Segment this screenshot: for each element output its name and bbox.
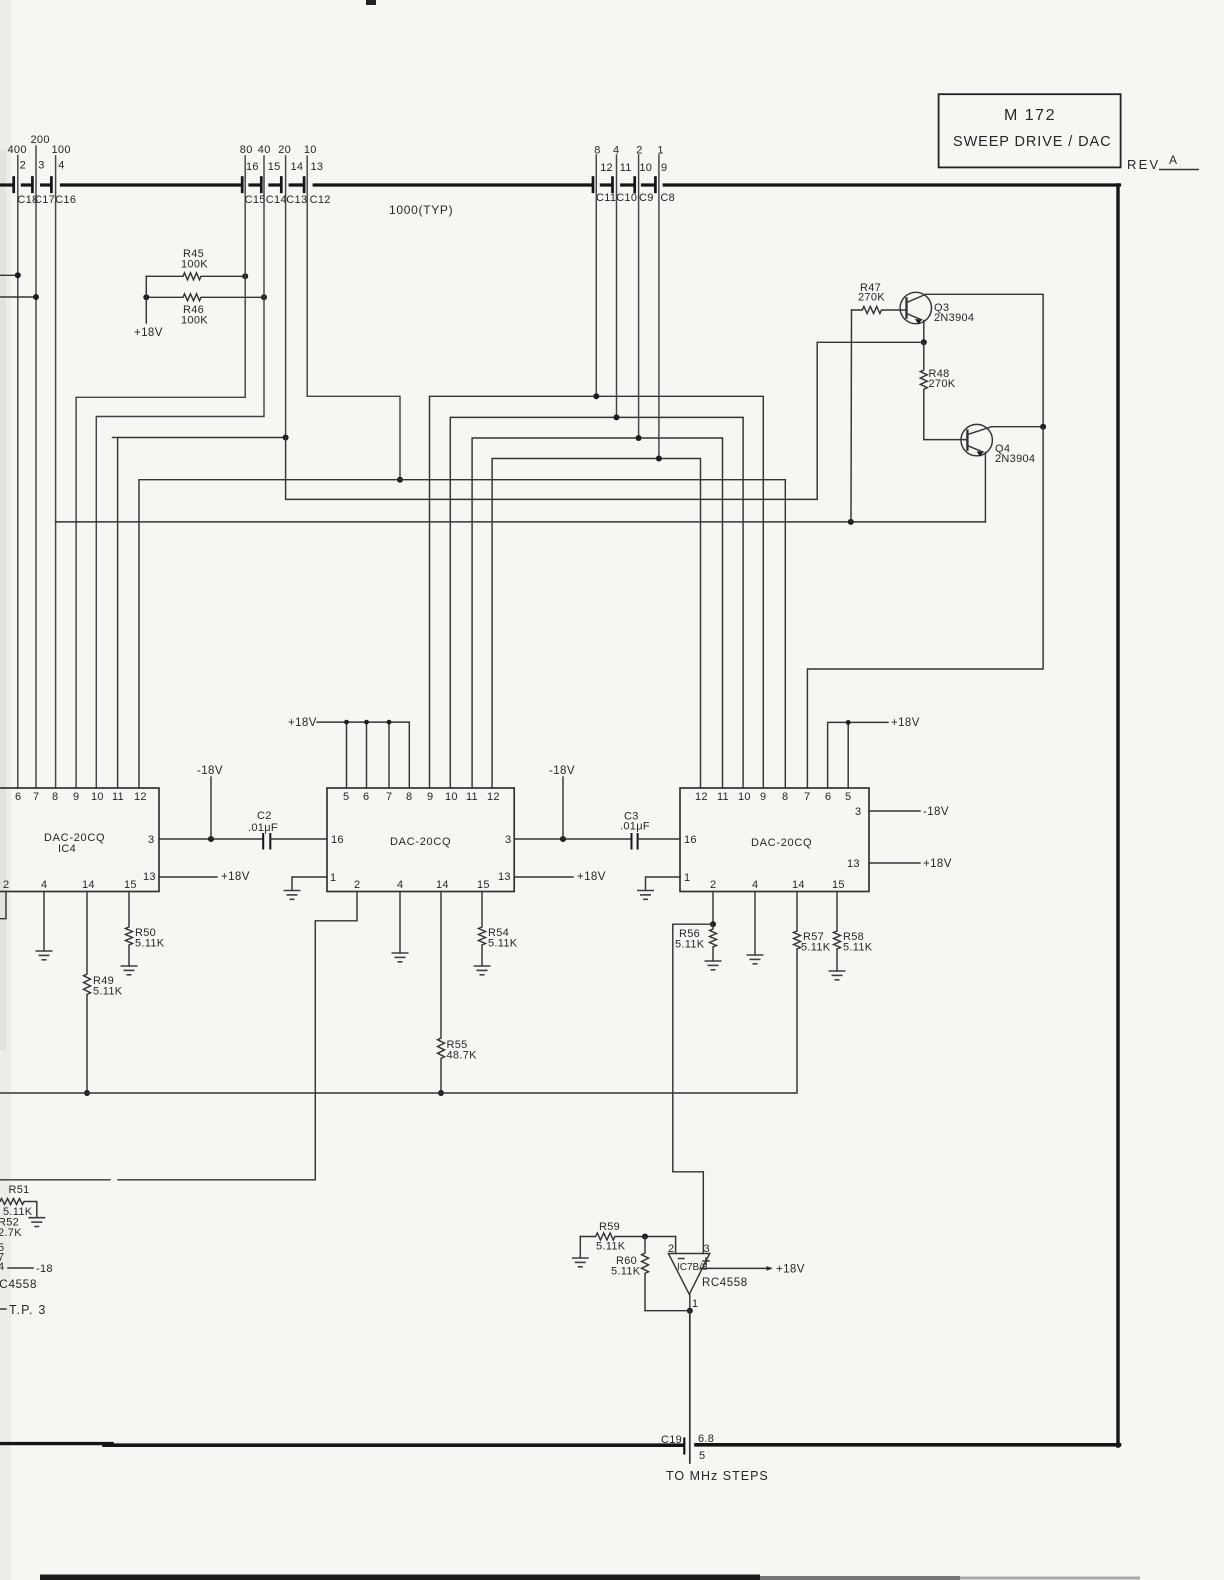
- ground (DAC3 pin 1): [637, 891, 654, 900]
- wire: R47 left riser down to y522 line: [850, 310, 853, 522]
- svg-text:14: 14: [792, 879, 805, 891]
- svg-text:3: 3: [148, 834, 154, 846]
- svg-text:1000(TYP): 1000(TYP): [389, 203, 453, 217]
- resistor R57 5.11K (DAC3 pin 14): [794, 892, 801, 956]
- svg-text:2.7K: 2.7K: [0, 1227, 22, 1239]
- wire: C10 line down: [616, 155, 618, 417]
- svg-text:2: 2: [668, 1243, 674, 1255]
- svg-text:2: 2: [710, 879, 716, 891]
- cap bank 2 pin numbers: [246, 161, 323, 173]
- svg-text:+18V: +18V: [221, 871, 250, 883]
- svg-text:.01μF: .01μF: [620, 821, 650, 833]
- svg-text:C15: C15: [245, 194, 266, 206]
- svg-text:20: 20: [278, 144, 291, 156]
- svg-text:10: 10: [639, 162, 652, 174]
- node: C8 joins pin12 net: [656, 456, 662, 462]
- svg-text:R51: R51: [9, 1184, 30, 1196]
- svg-text:1: 1: [692, 1298, 698, 1310]
- svg-text:200: 200: [31, 134, 50, 146]
- svg-text:+18V: +18V: [776, 1264, 805, 1276]
- svg-text:15: 15: [477, 879, 490, 891]
- svg-text:8: 8: [594, 145, 600, 157]
- svg-text:3: 3: [38, 160, 44, 172]
- svg-text:REV: REV: [1127, 157, 1160, 172]
- svg-text:1: 1: [684, 872, 690, 884]
- svg-text:5: 5: [343, 791, 349, 803]
- node: C9 joins pin11 net: [636, 435, 642, 441]
- svg-text:2: 2: [20, 160, 26, 172]
- wire: C13 net continues down then right to Q3 emitter riser: [286, 342, 818, 499]
- svg-text:10: 10: [304, 144, 317, 156]
- DAC3 bottom pin numbers: [710, 879, 845, 891]
- svg-text:IC4: IC4: [58, 843, 76, 855]
- wire: DAC2 pin 3 out to C3: [514, 838, 631, 840]
- svg-text:2: 2: [354, 879, 360, 891]
- svg-text:7: 7: [804, 791, 810, 803]
- svg-text:10: 10: [445, 791, 458, 803]
- svg-text:3: 3: [505, 834, 511, 846]
- node: C13 junction: [283, 435, 289, 441]
- svg-text:12: 12: [600, 162, 613, 174]
- svg-text:C16: C16: [55, 194, 76, 206]
- wire: DAC2 pin 11 net to DAC3 pin 11 with C9 tap: [472, 438, 722, 788]
- svg-text:R59: R59: [599, 1221, 620, 1233]
- svg-text:SWEEP DRIVE / DAC: SWEEP DRIVE / DAC: [953, 134, 1111, 150]
- capacitor C13 plate: [280, 178, 283, 192]
- wire: DAC3 pin 13 out to +18V: [869, 862, 920, 864]
- wire: IC4 pin 12 long line to DAC3 pin 8: [139, 480, 785, 788]
- label T.P. 3: [0, 1308, 6, 1310]
- node: -18V tap on DAC2 pin3 wire: [560, 836, 566, 842]
- node: R55 bottom on long net: [438, 1090, 444, 1096]
- svg-text:270K: 270K: [929, 378, 956, 390]
- wire: junction left and down to op-amp pin 3: [673, 924, 713, 1253]
- svg-text:7: 7: [386, 791, 392, 803]
- svg-text:8: 8: [406, 791, 412, 803]
- node: +18V taps: [344, 720, 349, 725]
- svg-text:8: 8: [782, 791, 788, 803]
- svg-text:C17: C17: [34, 194, 55, 206]
- wire: DAC2 pin 1 to ground: [292, 877, 327, 891]
- ground (DAC3 pin 4): [747, 955, 764, 964]
- svg-text:4: 4: [397, 879, 403, 891]
- resistor R48 270K (vertical): [920, 342, 966, 439]
- svg-text:+18V: +18V: [923, 858, 952, 870]
- svg-text:9: 9: [73, 791, 79, 803]
- svg-text:11: 11: [112, 791, 124, 803]
- svg-text:13: 13: [498, 871, 511, 883]
- svg-text:T.P. 3: T.P. 3: [9, 1303, 47, 1317]
- wire: DAC2 pin 9 net to DAC3 pin 9 with C11 tap: [430, 396, 764, 788]
- svg-text:3: 3: [704, 1243, 710, 1255]
- svg-text:1: 1: [330, 872, 336, 884]
- wire: stub from page edge to 200 line: [0, 296, 36, 298]
- capacitor C16 plate: [50, 178, 53, 192]
- svg-text:12: 12: [695, 791, 708, 803]
- capacitor C19 6.8 (on border): [683, 1439, 685, 1454]
- cap bank 1 value labels: [8, 134, 71, 156]
- wire: Q4 emitter down, corner left joins y522 line: [984, 452, 986, 522]
- svg-text:13: 13: [847, 858, 860, 870]
- resistor R46 100K: [146, 294, 264, 301]
- wire: C8 line down: [658, 155, 660, 459]
- svg-text:RC4558: RC4558: [702, 1277, 748, 1289]
- wire: long horizontal net y1093: [0, 955, 797, 1093]
- svg-text:11: 11: [466, 791, 478, 803]
- ground (R56): [705, 961, 722, 970]
- resistor R45 100K: [146, 273, 245, 280]
- svg-text:+18V: +18V: [134, 327, 163, 339]
- wire: Q3 emitter down to junction: [923, 321, 925, 343]
- capacitor C3 .01uF: [631, 834, 633, 849]
- svg-text:8: 8: [52, 791, 58, 803]
- ground (R54): [474, 966, 491, 975]
- svg-text:3: 3: [855, 806, 861, 818]
- svg-text:C10: C10: [616, 192, 637, 204]
- wire: output down to C19: [689, 1311, 691, 1463]
- node: R49 bottom on long net: [84, 1090, 90, 1096]
- DAC2 top pin numbers: [343, 791, 500, 803]
- wire: IC4 pin 11 line left segment: [113, 437, 118, 439]
- svg-text:5.11K: 5.11K: [843, 942, 873, 954]
- wire: +18V bundle to DAC2 pins 5-8: [317, 722, 409, 788]
- svg-text:6: 6: [15, 791, 21, 803]
- svg-text:12: 12: [134, 791, 147, 803]
- svg-text:40: 40: [258, 144, 271, 156]
- svg-text:DAC-20CQ: DAC-20CQ: [751, 837, 812, 849]
- svg-text:7: 7: [33, 791, 39, 803]
- svg-text:4: 4: [58, 160, 64, 172]
- capacitor C18 plate: [12, 178, 15, 192]
- DAC IC4 top pin numbers: [15, 791, 147, 803]
- svg-text:14: 14: [291, 161, 304, 173]
- svg-text:10: 10: [91, 791, 104, 803]
- node: stub1 junction: [15, 272, 21, 278]
- svg-text:13: 13: [143, 871, 156, 883]
- wire: DAC2 pin 13 out to +18V: [514, 876, 573, 878]
- svg-text:15: 15: [268, 161, 281, 173]
- wire: DAC2 pin 10 net to DAC3 pin 10 with C10 tap: [450, 417, 743, 788]
- capacitor C8 plate: [654, 178, 657, 192]
- border: bottom edge (right of C19): [696, 1443, 1120, 1447]
- node: R46 right on C14 line: [261, 294, 267, 300]
- svg-text:400: 400: [8, 144, 27, 156]
- svg-text:11: 11: [620, 162, 632, 174]
- node: -18V tap on pin3 wire: [208, 836, 214, 842]
- page scan artifacts: [0, 0, 11, 1580]
- svg-text:12: 12: [487, 791, 500, 803]
- DAC IC4 bottom pin numbers: [3, 879, 137, 891]
- svg-text:C12: C12: [310, 194, 331, 206]
- cap bank 3 value labels: [594, 145, 664, 157]
- svg-text:-18V: -18V: [549, 765, 575, 777]
- svg-text:+18V: +18V: [891, 717, 920, 729]
- wire: DAC2 pin 4 to ground: [399, 892, 401, 954]
- wire: DAC2 pin 2 path down-left-down off page: [118, 892, 357, 1180]
- resistor R47 270K: [852, 307, 901, 314]
- svg-text:14: 14: [82, 879, 95, 891]
- node: C10 joins pin10 net: [614, 414, 620, 420]
- svg-text:DAC-20CQ: DAC-20CQ: [390, 836, 451, 848]
- wire: C9 line down: [638, 155, 640, 438]
- capacitor C15 plate: [241, 178, 244, 192]
- wire: op-amp pin 2 stub: [675, 1237, 677, 1254]
- svg-text:10: 10: [738, 791, 751, 803]
- wire: IC4 pin 13 out to +18V: [159, 876, 217, 878]
- wire: DAC3 pin 4 to ground: [754, 892, 756, 956]
- svg-text:5.11K: 5.11K: [93, 986, 123, 998]
- cap bank 3 pin numbers: [600, 162, 667, 174]
- svg-text:+18V: +18V: [288, 717, 317, 729]
- svg-text:2: 2: [636, 145, 642, 157]
- node: Q4 collector joins Q3 collector riser: [1040, 424, 1046, 430]
- node: pin2/R56 junction: [710, 921, 716, 927]
- svg-text:5.11K: 5.11K: [801, 942, 831, 954]
- wire: op-amp +18V supply: [701, 1267, 772, 1269]
- transistor Q3 2N3904: [900, 292, 931, 324]
- svg-text:100: 100: [52, 144, 71, 156]
- svg-text:TO MHz STEPS: TO MHz STEPS: [666, 1469, 769, 1483]
- wire: +18V feed up to R45/R46: [145, 276, 147, 323]
- svg-text:C9: C9: [639, 192, 654, 204]
- resistor R49 5.11K (IC4 pin 14): [84, 892, 91, 1094]
- svg-text:-18V: -18V: [197, 765, 223, 777]
- svg-text:4: 4: [752, 879, 758, 891]
- border: right edge: [1116, 185, 1119, 1446]
- wire: pin 4 to -18: [8, 1267, 33, 1269]
- wire: -18V drop: [210, 777, 212, 839]
- svg-text:4: 4: [0, 1261, 4, 1273]
- svg-text:.01μF: .01μF: [248, 822, 278, 834]
- capacitor C10 plate: [611, 178, 614, 192]
- svg-text:5.11K: 5.11K: [675, 939, 705, 951]
- svg-text:C11: C11: [596, 192, 616, 204]
- node: C11 joins pin9 net: [593, 393, 599, 399]
- svg-text:100K: 100K: [181, 259, 208, 271]
- DAC IC4 box (left, cut by page edge): [0, 788, 159, 892]
- wire: DAC3 pin 2 down to junction: [712, 892, 714, 925]
- node: output/R60 junction: [687, 1308, 693, 1314]
- svg-text:IC7B/8: IC7B/8: [677, 1262, 708, 1273]
- wire: IC4 pin 3 out to C2: [159, 838, 263, 840]
- resistor R50 5.11K (IC4 pin 15): [126, 892, 133, 967]
- capacitor C9 plate: [633, 178, 636, 192]
- wire: C14 line down, corner left at y416.5, to IC4 pin 10: [96, 156, 264, 788]
- svg-text:-18V: -18V: [923, 806, 949, 818]
- capacitor C2 .01uF: [262, 834, 264, 849]
- wire: junction left to R60 bottom: [645, 1310, 690, 1312]
- svg-text:16: 16: [246, 161, 259, 173]
- wire: IC4 pin 4 to ground: [43, 892, 45, 952]
- wire: +18V bundle to DAC3 pins 5,6: [828, 722, 888, 788]
- title block box: [939, 94, 1121, 167]
- svg-text:4: 4: [41, 879, 47, 891]
- capacitor C12 plate: [303, 178, 306, 192]
- node: R47 riser joins y522 line: [848, 519, 854, 525]
- svg-text:RC4558: RC4558: [0, 1277, 37, 1291]
- svg-text:+18V: +18V: [577, 871, 606, 883]
- wire: net from C16/IC4 pin8 line across to Q4 emitter: [56, 521, 986, 523]
- svg-text:C8: C8: [660, 192, 675, 204]
- wire: emitter junction left then down (to y499 net): [817, 341, 924, 343]
- svg-text:2N3904: 2N3904: [934, 312, 974, 324]
- capacitor C17 plate: [31, 178, 34, 192]
- svg-text:-18: -18: [36, 1263, 53, 1275]
- node: R45/R46 left junction: [143, 294, 149, 300]
- wire: C12 line down, jog right at y396.3, down x400: [307, 156, 400, 480]
- svg-text:100K: 100K: [181, 315, 208, 327]
- wire: Q4 collector to riser: [992, 426, 1044, 428]
- top bus segments (thick) with capacitor gaps: [0, 183, 1120, 186]
- node: C12 jog joins IC4 pin12 line: [397, 477, 403, 483]
- svg-text:C14: C14: [266, 194, 287, 206]
- ground (R51): [28, 1218, 45, 1227]
- svg-text:48.7K: 48.7K: [447, 1050, 478, 1062]
- resistor R55 48.7K (DAC2 pin 14): [438, 892, 445, 1094]
- wire: collector riser down, corner left to DAC3 pin 7: [807, 427, 1043, 788]
- svg-text:13: 13: [311, 161, 324, 173]
- svg-text:5.11K: 5.11K: [488, 938, 518, 950]
- svg-text:2N3904: 2N3904: [995, 453, 1035, 465]
- node: R45 right on C15 line: [242, 273, 248, 279]
- node: stub2 junction: [33, 294, 39, 300]
- wire: DAC2 pin 12 net to DAC3 pin 12 with C8 tap: [492, 459, 700, 789]
- wire: R59 left down to ground: [579, 1237, 581, 1259]
- ground (DAC2 pin 4): [392, 953, 409, 962]
- ground (DAC2 pin 1): [284, 891, 301, 900]
- svg-text:9: 9: [427, 791, 433, 803]
- ground (R58): [829, 971, 846, 980]
- wire: DAC3 pin 3 out to -18V: [869, 810, 920, 812]
- wire: IC4 pin 2 stub down-left off page: [0, 892, 6, 919]
- svg-text:11: 11: [717, 791, 729, 803]
- resistor R59 5.11K: [580, 1233, 675, 1240]
- svg-text:15: 15: [832, 879, 845, 891]
- wire: 200 line (top pin3) down to IC4 pin 7: [35, 146, 37, 788]
- ground (R50): [121, 966, 138, 975]
- resistor R54 5.11K (DAC2 pin 15): [479, 892, 486, 967]
- op-amp IC7B RC4558: [668, 1254, 709, 1295]
- svg-text:15: 15: [124, 879, 137, 891]
- svg-text:6: 6: [363, 791, 369, 803]
- wire: C13 line down to junction at y437.5: [285, 156, 287, 438]
- svg-text:80: 80: [240, 144, 253, 156]
- ground (R59): [572, 1258, 589, 1267]
- svg-text:5.11K: 5.11K: [596, 1241, 626, 1253]
- wire: Q3 collector to right corner then down: [926, 294, 1043, 426]
- DAC2 bottom pin numbers: [354, 879, 490, 891]
- svg-text:16: 16: [684, 834, 697, 846]
- wire: C11 line down: [595, 155, 597, 396]
- cap bank 2 value labels: [240, 144, 317, 156]
- wire: C15 line down, corner left at y397, to IC4 pin 9: [76, 156, 245, 788]
- cap bank 2 refdes: [245, 194, 331, 206]
- DAC2 box (middle): [327, 788, 514, 892]
- svg-text:16: 16: [331, 834, 344, 846]
- svg-text:270K: 270K: [858, 292, 885, 304]
- cap bank 1 pin numbers: [20, 160, 65, 172]
- DAC3 top pin numbers: [695, 791, 851, 803]
- ground (IC4 pin 4): [36, 951, 53, 960]
- cap bank 3 refdes: [596, 192, 675, 204]
- transistor Q4 2N3904: [961, 424, 992, 456]
- svg-text:9: 9: [760, 791, 766, 803]
- svg-text:M 172: M 172: [1004, 107, 1056, 124]
- cap bank 1 refdes: [17, 194, 76, 206]
- svg-text:9: 9: [661, 162, 667, 174]
- wire: 400 line (top pin2) down to IC4 pin 6: [17, 156, 19, 789]
- node: R59/R60 junction: [642, 1234, 648, 1240]
- wire: -18V drop (DAC2): [562, 777, 564, 839]
- resistor R56 5.11K: [710, 924, 717, 961]
- DAC3 box (right): [680, 788, 869, 892]
- capacitor C14 plate: [260, 178, 263, 192]
- svg-text:5.11K: 5.11K: [611, 1266, 641, 1278]
- resistor R60 5.11K (vertical): [642, 1237, 649, 1311]
- svg-text:5.11K: 5.11K: [135, 938, 165, 950]
- wire: 100 line (top pin4) down to IC4 pin 8: [55, 156, 57, 788]
- svg-text:A: A: [1169, 153, 1177, 167]
- wire: DAC3 pin 1 to ground: [646, 877, 681, 891]
- capacitor C11 plate: [592, 178, 595, 192]
- svg-text:14: 14: [436, 879, 449, 891]
- svg-text:2: 2: [3, 879, 9, 891]
- resistor R58 5.11K (DAC3 pin 15): [834, 892, 841, 972]
- wire: op-amp output down: [689, 1294, 691, 1310]
- svg-text:5: 5: [699, 1450, 705, 1462]
- svg-text:C13: C13: [286, 194, 307, 206]
- wire: stub from page edge to 400 line: [0, 274, 18, 276]
- svg-text:5: 5: [845, 791, 851, 803]
- node: +18V tap pin 5: [846, 720, 851, 725]
- svg-text:C2: C2: [257, 810, 272, 822]
- svg-text:6: 6: [825, 791, 831, 803]
- node: Q3 emitter junction: [921, 339, 927, 345]
- border: bottom edge (left of C19): [0, 1442, 112, 1445]
